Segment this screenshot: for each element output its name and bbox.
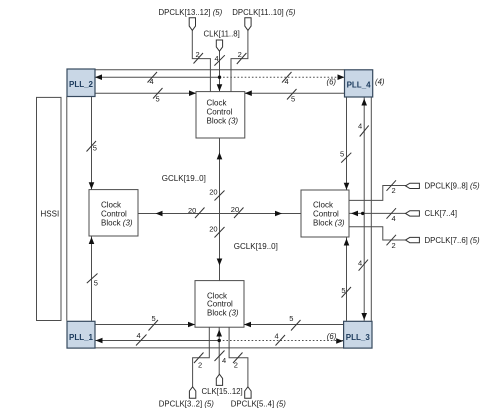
svg-text:(6): (6) bbox=[327, 78, 337, 87]
svg-text:4: 4 bbox=[150, 77, 154, 86]
svg-text:Control: Control bbox=[101, 210, 127, 219]
svg-text:PLL_3: PLL_3 bbox=[346, 333, 371, 342]
svg-text:CLK[11..8]: CLK[11..8] bbox=[204, 29, 240, 38]
svg-text:4: 4 bbox=[392, 214, 396, 223]
svg-text:(6): (6) bbox=[327, 332, 337, 341]
svg-text:Control: Control bbox=[207, 300, 233, 309]
svg-text:4: 4 bbox=[137, 331, 141, 340]
svg-text:2: 2 bbox=[198, 360, 202, 369]
svg-text:4: 4 bbox=[222, 356, 226, 365]
svg-text:Control: Control bbox=[313, 210, 339, 219]
svg-text:20: 20 bbox=[188, 206, 196, 215]
svg-text:20: 20 bbox=[209, 188, 217, 197]
svg-text:Block (3): Block (3) bbox=[313, 219, 345, 228]
svg-text:20: 20 bbox=[209, 224, 217, 233]
svg-text:DPCLK[11..10] (5): DPCLK[11..10] (5) bbox=[232, 8, 296, 17]
svg-text:GCLK[19..0]: GCLK[19..0] bbox=[234, 242, 278, 251]
svg-text:2: 2 bbox=[392, 241, 396, 250]
svg-text:DPCLK[7..6] (5): DPCLK[7..6] (5) bbox=[425, 236, 480, 245]
svg-text:5: 5 bbox=[94, 278, 98, 287]
svg-text:(4): (4) bbox=[375, 78, 385, 87]
svg-text:Clock: Clock bbox=[101, 201, 122, 210]
svg-text:CLK[15..12]: CLK[15..12] bbox=[202, 387, 243, 396]
svg-text:2: 2 bbox=[238, 50, 242, 59]
svg-text:Clock: Clock bbox=[207, 99, 228, 108]
svg-text:4: 4 bbox=[215, 54, 219, 63]
svg-text:2: 2 bbox=[234, 360, 238, 369]
svg-text:DPCLK[9..8] (5): DPCLK[9..8] (5) bbox=[425, 181, 480, 190]
svg-text:DPCLK[13..12] (5): DPCLK[13..12] (5) bbox=[159, 8, 223, 17]
svg-text:5: 5 bbox=[156, 95, 160, 104]
svg-text:Block (3): Block (3) bbox=[101, 218, 133, 227]
svg-text:5: 5 bbox=[289, 314, 293, 323]
svg-text:Clock: Clock bbox=[313, 201, 334, 210]
svg-text:4: 4 bbox=[358, 122, 362, 131]
svg-text:5: 5 bbox=[152, 314, 156, 323]
svg-text:DPCLK[5..4] (5): DPCLK[5..4] (5) bbox=[231, 400, 286, 409]
svg-text:Block (3): Block (3) bbox=[207, 309, 239, 318]
svg-text:PLL_2: PLL_2 bbox=[69, 80, 94, 89]
svg-text:4: 4 bbox=[285, 77, 289, 86]
svg-text:DPCLK[3..2] (5): DPCLK[3..2] (5) bbox=[159, 400, 214, 409]
svg-text:4: 4 bbox=[275, 332, 279, 341]
svg-text:CLK[7..4]: CLK[7..4] bbox=[425, 209, 458, 218]
svg-text:20: 20 bbox=[231, 205, 239, 214]
svg-text:5: 5 bbox=[93, 144, 97, 153]
svg-text:2: 2 bbox=[196, 50, 200, 59]
svg-text:5: 5 bbox=[341, 286, 345, 295]
svg-text:PLL_1: PLL_1 bbox=[69, 333, 94, 342]
svg-text:HSSI: HSSI bbox=[41, 210, 60, 219]
svg-text:PLL_4: PLL_4 bbox=[347, 81, 372, 90]
svg-text:Control: Control bbox=[207, 108, 233, 117]
svg-text:5: 5 bbox=[291, 95, 295, 104]
svg-text:4: 4 bbox=[358, 259, 362, 268]
svg-text:Block (3): Block (3) bbox=[207, 117, 239, 126]
svg-text:5: 5 bbox=[340, 150, 344, 159]
svg-text:GCLK[19..0]: GCLK[19..0] bbox=[162, 174, 206, 183]
svg-text:2: 2 bbox=[392, 186, 396, 195]
